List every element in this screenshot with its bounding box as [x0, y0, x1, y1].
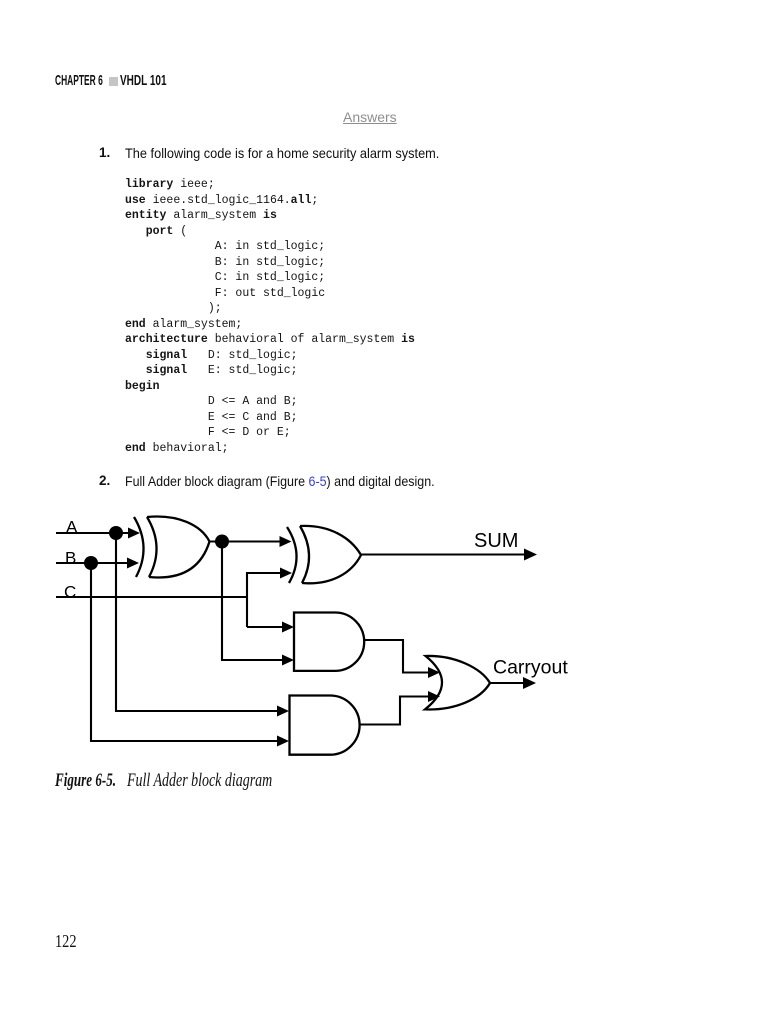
arrowhead into XOR2 top input [280, 536, 292, 547]
Answers heading [343, 109, 397, 125]
wire XOR1 output to XOR2 [210, 540, 281, 542]
wire A down to AND2 top input [116, 533, 278, 711]
item 2 number [99, 473, 110, 488]
svg-text:B: B [65, 549, 76, 568]
xor gate XOR1 [134, 517, 210, 578]
wire B [56, 562, 127, 564]
item 1 number [99, 145, 110, 160]
svg-text:C: C [64, 583, 76, 602]
node XOR1 output junction dot [215, 535, 229, 549]
arrowhead into AND1 bottom input [282, 655, 294, 666]
running head [55, 72, 103, 89]
arrowhead Carryout [523, 677, 536, 689]
xor gate XOR2 [287, 526, 361, 583]
page number [55, 931, 77, 952]
arrowhead into AND1 top input [282, 622, 294, 633]
wire AND2 output to OR bottom input [360, 697, 430, 725]
wire A [56, 532, 130, 534]
figure caption [55, 770, 116, 792]
wire Carryout [490, 682, 524, 684]
or gate OR1 [425, 656, 490, 710]
wire XOR1 output down to AND1 bottom input [222, 542, 283, 661]
VHDL code listing [125, 177, 415, 456]
and gate AND2 [290, 696, 360, 755]
arrowhead into OR top input [428, 667, 440, 678]
arrowhead into AND2 bottom input [277, 736, 289, 747]
arrowhead into OR bottom input [428, 691, 440, 702]
wire B down to AND2 bottom input [91, 563, 278, 741]
arrowhead B into XOR1 [127, 558, 139, 569]
arrowhead SUM [524, 549, 537, 561]
arrowhead into AND2 top input [277, 706, 289, 717]
full adder figure [0, 500, 768, 790]
svg-text:Carryout: Carryout [493, 657, 568, 679]
node B junction dot [84, 556, 98, 570]
wire C [56, 596, 247, 598]
arrowhead A into XOR1 [128, 528, 140, 539]
wire C to AND1 top input [247, 626, 283, 628]
and gate AND1 [294, 613, 364, 671]
wire AND1 output to OR top input [364, 640, 429, 673]
arrowhead into XOR2 bottom input [280, 568, 292, 579]
svg-text:SUM: SUM [474, 530, 518, 552]
item 2 text [125, 473, 435, 489]
wire SUM output [361, 553, 525, 555]
item 1 text [125, 145, 439, 161]
node A junction dot [109, 526, 123, 540]
wire C riser to XOR2 bottom input and AND1 top input [247, 573, 281, 627]
